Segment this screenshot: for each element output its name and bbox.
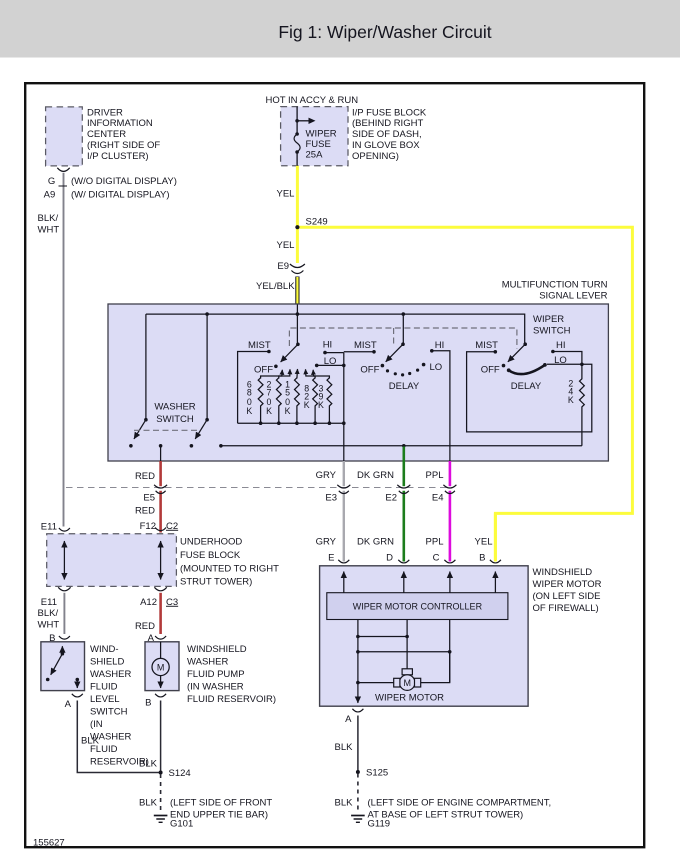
wafer1 contact arm R5	[313, 370, 329, 379]
svg-text:INFORMATION: INFORMATION	[87, 118, 153, 129]
svg-text:WIPER MOTOR: WIPER MOTOR	[375, 693, 444, 704]
svg-text:RED: RED	[135, 621, 155, 632]
svg-text:S249: S249	[306, 217, 328, 228]
svg-text:YEL: YEL	[277, 240, 295, 251]
pass-through terminal right	[160, 541, 162, 560]
washer fluid level switch box	[41, 642, 85, 691]
svg-text:E5: E5	[143, 493, 155, 504]
svg-text:(RIGHT SIDE OF: (RIGHT SIDE OF	[87, 140, 160, 151]
wire YEL from S249 to E9	[296, 227, 299, 263]
svg-text:DK GRN: DK GRN	[357, 470, 394, 481]
wiper motor M	[402, 669, 412, 675]
wafer3 junction node	[580, 363, 584, 367]
wafer1 blade arrow	[281, 344, 298, 362]
svg-text:YEL/BLK: YEL/BLK	[256, 281, 295, 292]
entry connector arcs at fuse block	[59, 528, 70, 531]
svg-text:(LEFT SIDE OF FRONT: (LEFT SIDE OF FRONT	[170, 798, 272, 809]
svg-text:WINDSHIELD: WINDSHIELD	[187, 644, 247, 655]
level switch contact	[46, 678, 50, 682]
node DK GRN tap	[402, 444, 406, 448]
svg-text:RED: RED	[135, 506, 155, 517]
svg-text:K: K	[318, 400, 324, 410]
wire YEL branch from S249 to right side	[297, 227, 632, 560]
svg-text:PPL: PPL	[426, 470, 444, 481]
pin tick G	[59, 185, 68, 187]
wafer2 pivot	[401, 342, 405, 346]
wafer3 frame wire	[467, 352, 592, 432]
junction bar lower	[358, 651, 450, 653]
svg-text:RED: RED	[135, 471, 155, 482]
inline connector E2	[397, 485, 410, 494]
svg-text:MULTIFUNCTION TURN: MULTIFUNCTION TURN	[502, 279, 608, 290]
svg-text:FLUID: FLUID	[90, 682, 118, 693]
svg-text:YEL: YEL	[475, 537, 493, 548]
splice S125	[356, 770, 360, 774]
svg-text:WHT: WHT	[38, 620, 60, 631]
wafer3 HI wire to junction	[553, 352, 582, 365]
wire RED from washer switch	[159, 461, 162, 486]
svg-text:155627: 155627	[33, 838, 65, 849]
washer switch right leg	[206, 314, 208, 420]
connector arcs at wiper motor entry D	[398, 560, 409, 563]
svg-text:BLK: BLK	[81, 736, 100, 747]
connector at DIC exit	[57, 168, 69, 172]
svg-text:GRY: GRY	[316, 537, 337, 548]
svg-text:M: M	[157, 663, 165, 673]
svg-text:MIST: MIST	[475, 340, 498, 351]
wafer3 MIST contact	[494, 350, 498, 354]
node at feed branch	[295, 119, 299, 123]
svg-text:K: K	[568, 395, 574, 405]
svg-text:C: C	[433, 553, 440, 564]
svg-text:WASHER: WASHER	[187, 657, 228, 668]
fuse element node top	[295, 132, 299, 136]
motor brush right	[415, 678, 421, 687]
input arrow B	[494, 572, 496, 593]
svg-text:OPENING): OPENING)	[352, 151, 399, 162]
svg-text:HOT IN ACCY & RUN: HOT IN ACCY & RUN	[266, 95, 359, 106]
wire GRY from wiper switch	[343, 461, 345, 486]
wire BLK from level switch A	[77, 701, 160, 773]
svg-text:HI: HI	[323, 340, 333, 351]
fuse element node bottom	[295, 150, 299, 154]
title bar	[0, 0, 680, 58]
input arrow E	[343, 572, 345, 593]
svg-text:SWITCH: SWITCH	[156, 414, 194, 425]
svg-text:STRUT TOWER): STRUT TOWER)	[180, 577, 252, 588]
svg-text:YEL: YEL	[277, 189, 295, 200]
svg-text:(IN WASHER: (IN WASHER	[187, 682, 244, 693]
wafer1 OFF contact	[274, 365, 278, 369]
svg-text:E11: E11	[41, 522, 57, 533]
node feed wafer1	[296, 312, 300, 316]
svg-text:I/P FUSE BLOCK: I/P FUSE BLOCK	[352, 107, 427, 118]
svg-text:(LEFT SIDE OF ENGINE COMPARTME: (LEFT SIDE OF ENGINE COMPARTMENT,	[368, 798, 552, 809]
resistor 39K	[327, 378, 332, 423]
svg-text:F12: F12	[140, 521, 156, 532]
svg-text:G: G	[48, 176, 55, 187]
svg-text:I/P CLUSTER): I/P CLUSTER)	[87, 151, 149, 162]
svg-text:GRY: GRY	[316, 470, 337, 481]
ground G101	[154, 816, 168, 823]
resistor 270K	[276, 378, 281, 423]
wafer2 blade arrow	[386, 344, 403, 362]
wire RED below fuse block	[154, 587, 166, 591]
exit connector B of pump	[155, 694, 166, 697]
wire BLK from motor A	[357, 716, 359, 773]
wafer1 resistor bus	[238, 422, 344, 424]
svg-text:M: M	[403, 678, 411, 688]
wire DK GRN	[402, 447, 405, 487]
inline connector dashed line	[66, 487, 452, 489]
svg-text:WINDSHIELD: WINDSHIELD	[533, 567, 593, 578]
svg-text:5: 5	[285, 388, 290, 398]
svg-text:C2: C2	[166, 521, 178, 532]
svg-text:WIPER MOTOR: WIPER MOTOR	[533, 579, 602, 590]
washer contact left	[129, 444, 133, 448]
svg-text:HI: HI	[435, 340, 445, 351]
svg-text:WIPER: WIPER	[533, 314, 564, 325]
svg-text:BLK: BLK	[335, 798, 354, 809]
wafer3 OFF contact	[502, 364, 506, 368]
wafer3 blade arrow	[508, 344, 525, 362]
svg-text:IN GLOVE BOX: IN GLOVE BOX	[352, 140, 420, 151]
svg-text:Fig 1: Wiper/Washer Circuit: Fig 1: Wiper/Washer Circuit	[278, 22, 491, 42]
svg-text:E2: E2	[385, 493, 397, 504]
wafer1 contact arm R1	[261, 370, 283, 379]
svg-text:WASHER: WASHER	[90, 669, 131, 680]
svg-text:FUSE BLOCK: FUSE BLOCK	[180, 550, 241, 561]
input arrow C	[449, 572, 451, 593]
svg-text:WIPER MOTOR CONTROLLER: WIPER MOTOR CONTROLLER	[353, 602, 483, 612]
wafer2 rail to PPL	[432, 351, 450, 461]
input arrow D	[403, 572, 405, 593]
svg-text:FLUID RESERVOIR): FLUID RESERVOIR)	[187, 694, 276, 705]
svg-text:OF FIREWALL): OF FIREWALL)	[533, 603, 599, 614]
svg-text:SWITCH: SWITCH	[90, 707, 128, 718]
svg-text:S125: S125	[366, 768, 388, 779]
controller output wire center	[406, 620, 408, 670]
svg-text:A: A	[345, 714, 352, 725]
wafer2 MIST contact	[372, 350, 376, 354]
dashed mechanical linkage	[289, 328, 517, 349]
svg-text:BLK/: BLK/	[38, 608, 59, 619]
wire feed to wafer2 pivot	[402, 314, 404, 344]
wiper switch label	[533, 314, 571, 337]
svg-text:SHIELD: SHIELD	[90, 657, 124, 668]
inline connector E5	[154, 485, 167, 494]
svg-text:E9: E9	[277, 261, 289, 272]
svg-text:B: B	[145, 698, 151, 709]
svg-text:E: E	[328, 553, 334, 564]
splice S124	[159, 771, 163, 775]
svg-text:LEVEL: LEVEL	[90, 694, 120, 705]
windshield washer fluid pump label	[187, 644, 276, 705]
wire to box bottom	[296, 152, 298, 166]
washer switch left leg	[145, 314, 147, 420]
underhood fuse block box	[47, 534, 177, 587]
svg-text:MIST: MIST	[354, 340, 377, 351]
wafer3 HI contact	[551, 350, 555, 354]
wiper fuse 25A element	[294, 134, 300, 152]
wire BLK/WHT below fuse block	[58, 587, 70, 591]
wafer3 delay wiper arc	[509, 365, 545, 374]
svg-text:8: 8	[247, 388, 252, 398]
wire BLK dashed to G119	[357, 774, 359, 814]
pump feed wire	[160, 642, 162, 659]
svg-text:WIND-: WIND-	[90, 644, 119, 655]
exit connector A of motor	[352, 709, 363, 712]
controller output wire left	[357, 620, 359, 683]
wafer1 MIST wire to resistor bus	[238, 352, 269, 424]
connector arcs at wiper motor entry C	[444, 560, 455, 563]
svg-text:CENTER: CENTER	[87, 129, 126, 140]
washer switch linkage dashed	[134, 429, 200, 431]
svg-text:BLK: BLK	[139, 759, 158, 770]
I/P fuse block location label	[352, 107, 427, 162]
washer switch blade 2	[205, 418, 209, 422]
ground output arrow	[357, 683, 359, 703]
wafer2 LO contact	[422, 363, 426, 367]
multifunction turn signal lever box	[108, 304, 608, 461]
feed arrow to other circuits	[297, 120, 309, 122]
wafer1 contact arm R3	[296, 369, 299, 379]
svg-text:SIDE OF DASH,: SIDE OF DASH,	[352, 129, 422, 140]
inline connector E3	[337, 485, 350, 494]
svg-text:OFF: OFF	[481, 365, 500, 376]
svg-text:(W/ DIGITAL DISPLAY): (W/ DIGITAL DISPLAY)	[71, 189, 170, 200]
svg-text:BLK/: BLK/	[38, 213, 59, 224]
wiper motor controller box	[327, 593, 508, 620]
svg-text:K: K	[285, 406, 291, 416]
pump motor M	[152, 658, 169, 675]
washer contact right	[190, 444, 194, 448]
driver information center label	[87, 107, 160, 162]
svg-text:FLUID PUMP: FLUID PUMP	[187, 669, 245, 680]
svg-text:E4: E4	[432, 493, 444, 504]
I/P fuse block box	[281, 107, 348, 166]
wafer1 HI contact	[323, 351, 327, 355]
svg-text:(IN: (IN	[90, 719, 103, 730]
svg-text:K: K	[246, 406, 252, 416]
svg-text:BLK: BLK	[139, 798, 158, 809]
wafer2 delay contacts	[386, 369, 389, 372]
wire YEL/BLK from E9 into multifunction switch	[295, 277, 299, 305]
svg-text:OFF: OFF	[254, 365, 273, 376]
ground G119	[351, 816, 365, 823]
windshield washer fluid pump box	[145, 642, 179, 691]
svg-text:A12: A12	[140, 597, 157, 608]
motor right wire	[421, 652, 450, 683]
svg-text:E11: E11	[41, 597, 57, 608]
svg-text:AT BASE OF LEFT STRUT TOWER): AT BASE OF LEFT STRUT TOWER)	[368, 810, 524, 821]
wire inside fuse block	[296, 107, 298, 134]
node feed wafer2	[402, 312, 406, 316]
level switch output arrow down	[76, 680, 78, 689]
svg-text:WIPER: WIPER	[306, 129, 337, 140]
svg-text:7: 7	[267, 388, 272, 398]
wafer1 contact arm R4	[306, 369, 316, 378]
wafer1 LO contact	[315, 364, 319, 368]
resistor 680K	[258, 378, 263, 423]
svg-text:B: B	[479, 553, 485, 564]
svg-text:(MOUNTED TO RIGHT: (MOUNTED TO RIGHT	[180, 563, 279, 574]
wire YEL to motor	[494, 513, 497, 561]
svg-text:BLK: BLK	[335, 742, 354, 753]
underhood fuse block label	[180, 537, 279, 588]
svg-text:SWITCH: SWITCH	[533, 326, 571, 337]
wire BLK dashed to G101	[160, 774, 162, 813]
windshield washer fluid level switch label	[90, 644, 149, 768]
svg-text:A: A	[65, 699, 72, 710]
windshield wiper motor label	[533, 567, 602, 614]
svg-text:DK GRN: DK GRN	[357, 537, 394, 548]
washer switch blade 1	[144, 418, 148, 422]
connector arcs at wiper motor entry B	[490, 560, 501, 563]
junction bar upper	[358, 636, 407, 638]
svg-text:(ON LEFT SIDE: (ON LEFT SIDE	[533, 591, 601, 602]
wire YEL/BLK entry to wafer1 pivot	[296, 305, 298, 345]
level switch output node	[76, 678, 80, 682]
windshield wiper motor box	[320, 566, 528, 706]
pass-through terminal left	[63, 541, 65, 560]
splice S249	[295, 225, 299, 229]
wire label BLK/WHT lower	[38, 608, 60, 631]
inline connector E4	[443, 485, 456, 494]
svg-text:OFF: OFF	[360, 365, 379, 376]
wafer1 MIST contact	[267, 350, 271, 354]
feed wire across switch tops	[146, 314, 525, 344]
svg-text:G119: G119	[368, 819, 391, 830]
resistor 24K	[580, 364, 585, 446]
svg-text:(W/O DIGITAL DISPLAY): (W/O DIGITAL DISPLAY)	[71, 176, 177, 187]
svg-text:DRIVER: DRIVER	[87, 107, 123, 118]
svg-text:A9: A9	[44, 189, 56, 200]
svg-text:WASHER: WASHER	[154, 402, 195, 413]
svg-text:25A: 25A	[306, 150, 324, 161]
svg-text:LO: LO	[430, 362, 443, 373]
wire label BLK/WHT	[38, 213, 60, 236]
level switch feed arrow up	[61, 646, 63, 654]
svg-text:SIGNAL LEVER: SIGNAL LEVER	[539, 291, 607, 302]
svg-text:HI: HI	[556, 340, 566, 351]
ground location note G101	[170, 798, 272, 821]
motor brush left	[394, 678, 400, 687]
wire to RED below	[160, 446, 162, 461]
svg-text:(BEHIND RIGHT: (BEHIND RIGHT	[352, 118, 423, 129]
wire BLK/WHT from DIC down to E11	[63, 173, 65, 527]
svg-text:K: K	[304, 400, 310, 410]
wire YEL from fuse to S249	[296, 166, 299, 227]
wiper fuse label	[306, 129, 337, 161]
svg-text:S124: S124	[169, 768, 191, 779]
wire PPL	[449, 461, 452, 486]
svg-text:DELAY: DELAY	[511, 381, 542, 392]
svg-text:LO: LO	[554, 355, 567, 366]
wafer1 contact arm R2	[279, 369, 290, 378]
washer bus start node	[219, 444, 223, 448]
motor left wire	[358, 682, 394, 684]
ground location note G119	[368, 798, 552, 821]
svg-text:K: K	[266, 406, 272, 416]
svg-text:DELAY: DELAY	[389, 381, 420, 392]
driver information center box	[46, 107, 83, 166]
controller output wire right	[449, 620, 451, 683]
svg-text:FUSE: FUSE	[306, 139, 331, 150]
entry arc pump	[155, 636, 166, 639]
wire BLK from pump B	[160, 701, 162, 773]
washer bus wire to 24K resistor	[221, 445, 582, 447]
svg-text:UNDERHOOD: UNDERHOOD	[180, 537, 242, 548]
exit connector A of level switch	[72, 694, 83, 697]
connector arcs at wiper motor entry E	[338, 560, 349, 563]
pump output arrow	[160, 676, 162, 688]
wafer2 HI contact	[430, 349, 434, 353]
svg-text:C3: C3	[166, 597, 178, 608]
level switch blade	[51, 654, 63, 675]
resistor 82K	[313, 378, 318, 423]
multifunction turn signal lever label	[502, 279, 608, 301]
wafer1 rail to GRY	[343, 353, 345, 461]
resistor 150K	[295, 378, 300, 423]
wafer1 pivot	[296, 343, 300, 347]
svg-text:E3: E3	[325, 493, 337, 504]
washer switch label	[154, 402, 195, 426]
wafer3 pivot	[523, 342, 527, 346]
entry arc level switch	[59, 636, 70, 639]
svg-text:G101: G101	[170, 819, 193, 830]
svg-text:WHT: WHT	[38, 225, 60, 236]
wafer2 OFF contact	[381, 364, 385, 368]
svg-text:MIST: MIST	[248, 340, 271, 351]
washer contact RED tap	[159, 444, 163, 448]
svg-text:PPL: PPL	[426, 537, 444, 548]
svg-text:D: D	[386, 553, 393, 564]
